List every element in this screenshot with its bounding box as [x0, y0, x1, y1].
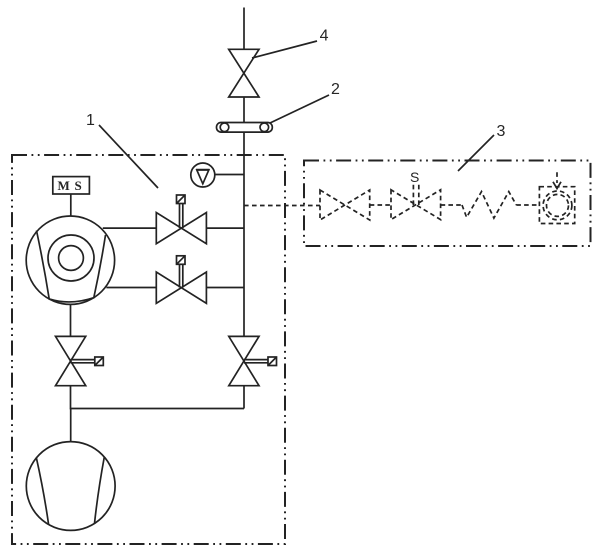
damper stem with arrow	[553, 172, 561, 188]
svg-text:M: M	[58, 178, 70, 193]
wire: pipe between valve 4 and flange 2	[243, 97, 245, 123]
label M S	[58, 178, 82, 193]
svg-text:3: 3	[497, 123, 506, 140]
wire: M S box to compressor	[70, 194, 72, 216]
leader line for label 3	[458, 135, 494, 171]
label 3	[497, 123, 506, 140]
dashed link valve V6 to spring	[441, 204, 462, 206]
wire: main vertical pipe into box 1	[243, 132, 245, 336]
dashed link valve V5 to valve V6	[370, 204, 391, 206]
wire: manifold down to pump	[70, 409, 72, 442]
svg-text:2: 2	[331, 81, 340, 98]
dashed signal line from main pipe to box 3	[244, 205, 320, 207]
wire: valve A to main pipe	[206, 227, 244, 229]
dashed valve V5 in box 3	[320, 190, 370, 220]
valve D (right manual valve, vertical)	[229, 336, 277, 385]
svg-text:S: S	[410, 169, 419, 185]
wire: valve B to main pipe	[206, 287, 244, 289]
wire: valve D to bottom manifold	[243, 386, 245, 409]
compressor C1 (circle with rotor)	[26, 216, 114, 304]
label 2	[331, 81, 340, 98]
wire: compressor down to valve C	[70, 304, 72, 336]
instrument I1 (circle with vent symbol)	[191, 163, 215, 187]
wire: valve C down then right	[71, 386, 245, 409]
label S on solenoid	[410, 169, 419, 185]
svg-text:S: S	[75, 178, 82, 193]
valve B (lower gate valve with actuator)	[156, 256, 206, 303]
flange fitting 2	[217, 123, 273, 133]
dashed link spring to damper	[516, 204, 539, 206]
leader line for label 2	[270, 95, 329, 123]
wire: top inlet pipe	[243, 8, 245, 50]
solenoid valve V6 in box 3	[391, 182, 441, 220]
valve 4 (vertical bowtie valve)	[229, 49, 259, 97]
wire: instrument to main pipe	[215, 174, 244, 176]
valve C (left manual valve, vertical)	[56, 336, 104, 385]
leader line for label 4	[252, 41, 317, 58]
svg-text:4: 4	[320, 28, 329, 45]
spring (dashed zigzag)	[462, 192, 516, 219]
valve A (upper gate valve with actuator)	[156, 195, 206, 244]
svg-text:1: 1	[86, 112, 95, 129]
damper unit (dashed square with circles)	[539, 187, 574, 224]
label 1	[86, 112, 95, 129]
leader line for label 1	[99, 125, 158, 188]
enclosure box 3 border (dash-dot-dot)	[304, 161, 591, 247]
enclosure box 1 border (dash-dot-dot)	[12, 155, 285, 544]
wire: compressor to valve A	[103, 227, 157, 229]
motor starter box "M S"	[53, 177, 90, 194]
label 4	[320, 28, 329, 45]
wire: compressor to valve B	[106, 287, 156, 289]
pump P1 (circle with rotor)	[26, 442, 115, 531]
